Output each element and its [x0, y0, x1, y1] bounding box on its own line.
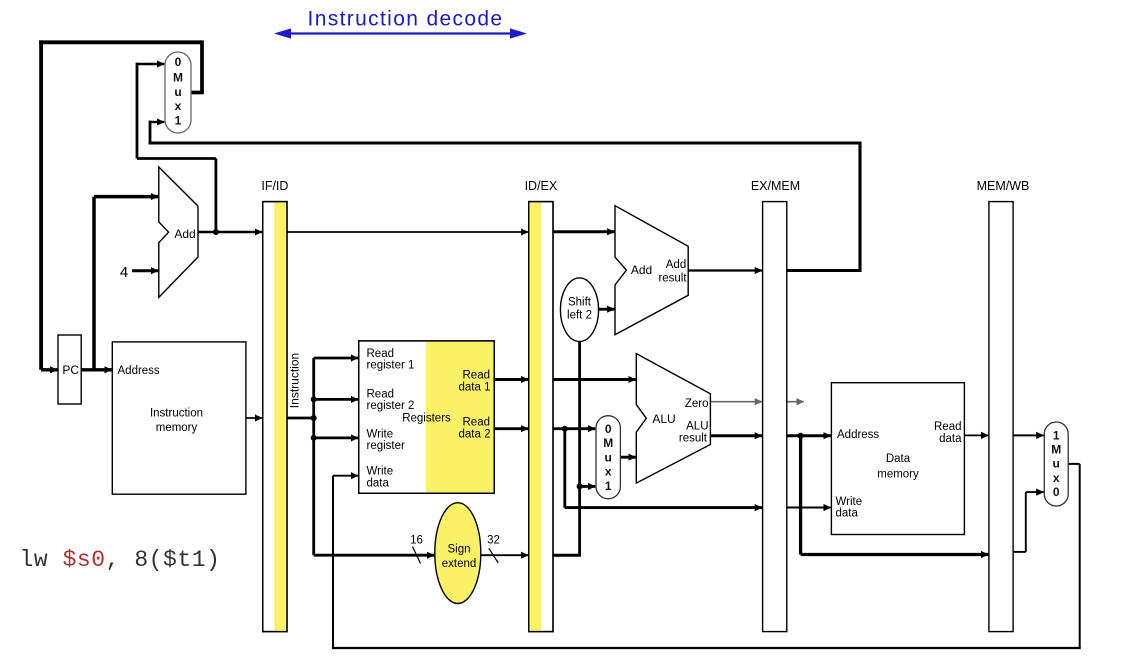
- svg-text:Instruction: Instruction: [150, 408, 203, 420]
- svg-text:x: x: [605, 465, 612, 479]
- svg-text:IF/ID: IF/ID: [261, 179, 288, 193]
- svg-text:Registers: Registers: [402, 413, 451, 425]
- svg-text:Read: Read: [367, 389, 395, 401]
- svg-text:Add: Add: [631, 263, 652, 277]
- svg-text:memory: memory: [877, 469, 919, 481]
- svg-text:Read: Read: [934, 421, 962, 433]
- svg-text:1: 1: [1053, 429, 1060, 443]
- svg-text:Sign: Sign: [447, 544, 470, 556]
- svg-text:1: 1: [605, 479, 612, 493]
- svg-text:Address: Address: [118, 365, 160, 377]
- svg-text:Write: Write: [367, 429, 394, 441]
- svg-text:16: 16: [410, 535, 423, 547]
- svg-text:data: data: [367, 478, 390, 490]
- svg-text:Write: Write: [836, 496, 863, 508]
- svg-text:result: result: [658, 273, 687, 285]
- svg-text:MEM/WB: MEM/WB: [977, 179, 1030, 193]
- svg-text:0: 0: [1053, 485, 1060, 499]
- svg-text:Add: Add: [666, 259, 686, 271]
- svg-text:M: M: [603, 436, 613, 450]
- svg-text:Shift: Shift: [568, 297, 592, 309]
- svg-text:EX/MEM: EX/MEM: [751, 179, 800, 193]
- svg-text:Data: Data: [886, 453, 911, 465]
- svg-text:data: data: [939, 433, 962, 445]
- svg-text:32: 32: [487, 535, 500, 547]
- svg-text:u: u: [1053, 457, 1060, 471]
- svg-text:u: u: [174, 85, 181, 99]
- svg-text:4: 4: [120, 264, 128, 281]
- svg-text:lw $s0, 8($t1): lw $s0, 8($t1): [20, 547, 221, 573]
- svg-text:data 2: data 2: [459, 429, 491, 441]
- svg-text:ID/EX: ID/EX: [525, 179, 558, 193]
- svg-text:Add: Add: [174, 227, 195, 241]
- svg-text:data: data: [836, 508, 859, 520]
- svg-text:register 2: register 2: [367, 400, 415, 412]
- svg-text:Read: Read: [367, 348, 395, 360]
- svg-text:1: 1: [175, 114, 182, 128]
- svg-text:memory: memory: [156, 422, 198, 434]
- svg-text:0: 0: [175, 55, 182, 69]
- svg-text:register 1: register 1: [367, 360, 415, 372]
- svg-text:data 1: data 1: [459, 382, 491, 394]
- svg-text:PC: PC: [62, 363, 79, 377]
- svg-text:ALU: ALU: [686, 421, 708, 433]
- svg-text:ALU: ALU: [652, 412, 675, 426]
- svg-text:x: x: [1053, 471, 1060, 485]
- svg-text:Instruction: Instruction: [288, 353, 302, 408]
- svg-text:x: x: [175, 99, 182, 113]
- svg-text:M: M: [173, 71, 183, 85]
- svg-text:0: 0: [605, 422, 612, 436]
- svg-text:register: register: [367, 440, 406, 452]
- svg-text:Address: Address: [837, 429, 879, 441]
- svg-text:extend: extend: [442, 558, 477, 570]
- svg-text:M: M: [1051, 443, 1061, 457]
- svg-text:Read: Read: [463, 417, 491, 429]
- svg-text:Read: Read: [463, 370, 491, 382]
- svg-text:Write: Write: [367, 466, 394, 478]
- svg-text:u: u: [605, 450, 612, 464]
- svg-text:Instruction decode: Instruction decode: [308, 8, 504, 31]
- svg-text:Zero: Zero: [685, 398, 709, 410]
- svg-text:result: result: [679, 433, 708, 445]
- svg-text:left 2: left 2: [567, 310, 592, 322]
